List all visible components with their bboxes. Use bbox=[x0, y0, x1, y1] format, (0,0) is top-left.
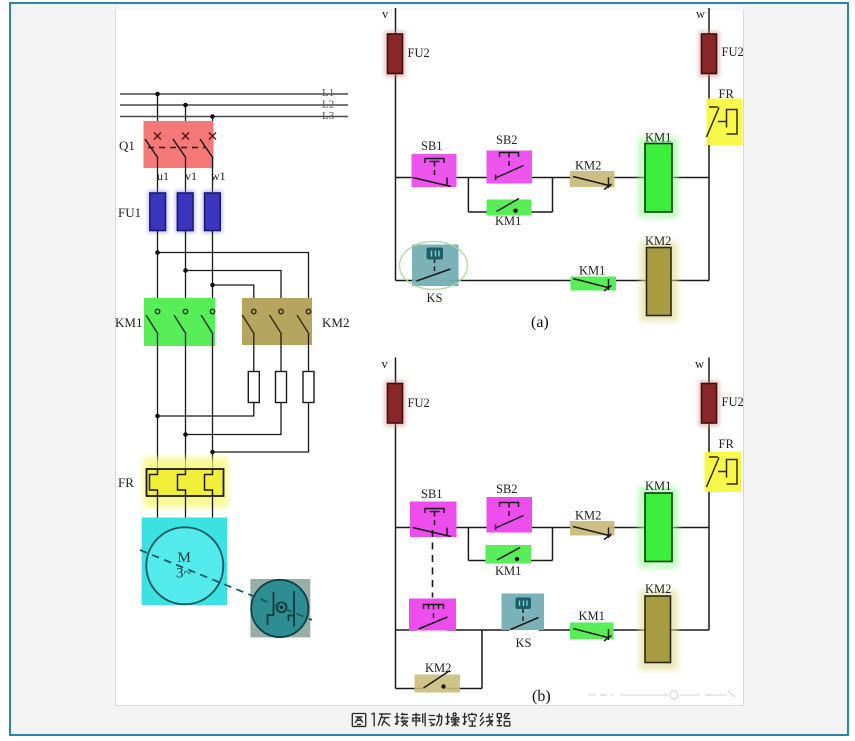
svg-text:KM1: KM1 bbox=[495, 564, 521, 578]
svg-text:KM1: KM1 bbox=[495, 214, 521, 228]
svg-text:KM2: KM2 bbox=[575, 509, 601, 523]
svg-text:KM1: KM1 bbox=[645, 479, 671, 493]
svg-text:SB1: SB1 bbox=[421, 139, 443, 153]
svg-text:SB2: SB2 bbox=[496, 482, 518, 496]
svg-text:L2: L2 bbox=[322, 99, 334, 111]
svg-text:KM2: KM2 bbox=[425, 661, 451, 675]
svg-text:KS: KS bbox=[516, 636, 532, 650]
svg-text:KM1: KM1 bbox=[579, 609, 605, 623]
svg-text:Q1: Q1 bbox=[119, 138, 135, 153]
svg-text:FU2: FU2 bbox=[408, 46, 430, 60]
svg-text:(a): (a) bbox=[531, 314, 549, 331]
svg-text:KM2: KM2 bbox=[322, 315, 349, 330]
svg-text:KM1: KM1 bbox=[579, 264, 605, 278]
svg-text:KM2: KM2 bbox=[575, 159, 601, 173]
svg-text:FR: FR bbox=[719, 437, 735, 451]
svg-text:KM2: KM2 bbox=[645, 234, 671, 248]
svg-text:v: v bbox=[382, 7, 389, 21]
svg-text:FU2: FU2 bbox=[722, 45, 744, 59]
svg-text:L3: L3 bbox=[322, 110, 335, 122]
svg-text:w: w bbox=[696, 7, 705, 21]
svg-text:v1: v1 bbox=[185, 169, 197, 183]
svg-text:SB2: SB2 bbox=[496, 133, 518, 147]
svg-text:KM1: KM1 bbox=[115, 315, 142, 330]
svg-text:FR: FR bbox=[118, 475, 134, 490]
svg-text:FU2: FU2 bbox=[722, 395, 744, 409]
svg-text:L1: L1 bbox=[322, 87, 334, 99]
svg-text:FU2: FU2 bbox=[408, 396, 430, 410]
svg-text:KM1: KM1 bbox=[645, 131, 671, 145]
svg-text:w1: w1 bbox=[211, 169, 226, 183]
svg-text:FU1: FU1 bbox=[118, 205, 141, 220]
svg-text:SB1: SB1 bbox=[421, 487, 443, 501]
svg-text:KM2: KM2 bbox=[645, 582, 671, 596]
svg-text:M: M bbox=[178, 550, 191, 566]
svg-text:KS: KS bbox=[427, 291, 443, 305]
svg-text:(b): (b) bbox=[532, 688, 551, 705]
svg-text:3~: 3~ bbox=[176, 566, 192, 582]
svg-text:w: w bbox=[695, 357, 704, 371]
svg-text:v: v bbox=[382, 357, 389, 371]
svg-text:FR: FR bbox=[719, 87, 735, 101]
svg-text:u1: u1 bbox=[157, 169, 169, 183]
